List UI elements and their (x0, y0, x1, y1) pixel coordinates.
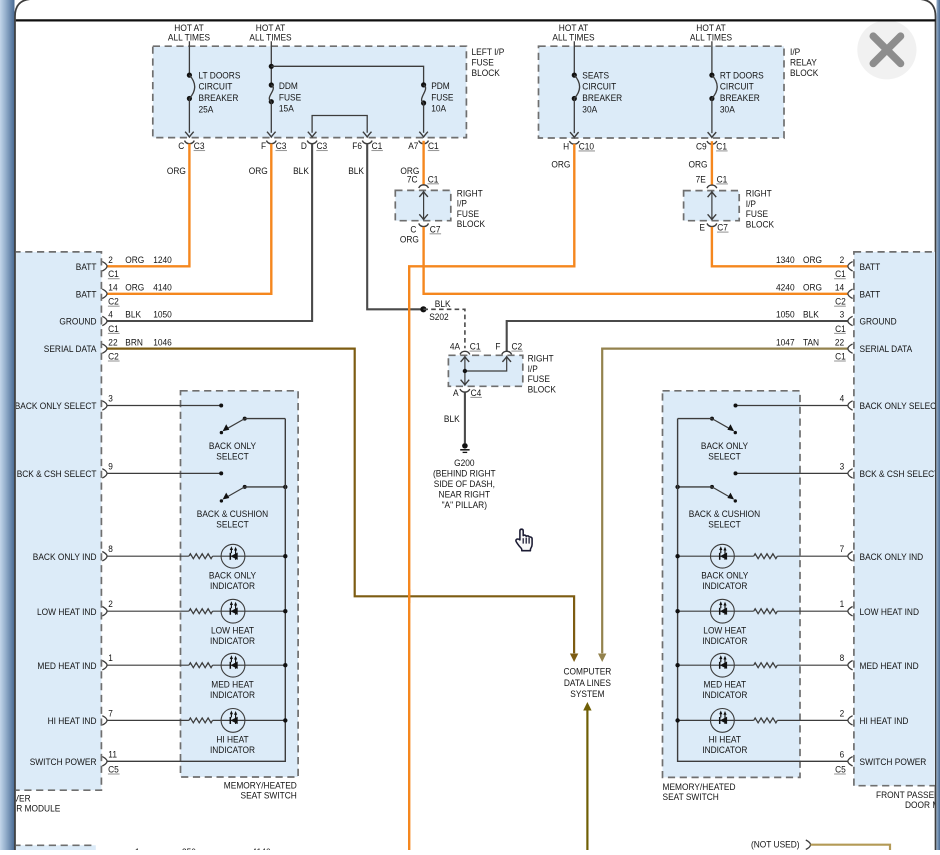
svg-text:INDICATOR: INDICATOR (210, 690, 255, 701)
wire: pass-through arrows inside fuse block (708, 192, 717, 220)
svg-text:BACK ONLY IND: BACK ONLY IND (33, 552, 97, 563)
svg-text:4: 4 (840, 394, 845, 405)
svg-text:LOW HEAT IND: LOW HEAT IND (860, 607, 920, 618)
connector D C3 (301, 141, 328, 152)
svg-text:SERIAL DATA: SERIAL DATA (44, 344, 97, 355)
wire BRN 1046: driver module SERIAL DATA to computer data lines (107, 349, 578, 662)
svg-text:RT DOORS: RT DOORS (720, 70, 764, 81)
wire: feed into SEATS breaker (573, 41, 575, 75)
svg-text:BACK ONLY SELECT: BACK ONLY SELECT (860, 401, 940, 412)
svg-text:BLOCK: BLOCK (746, 219, 775, 230)
connector 7C C1 (407, 174, 439, 188)
svg-text:BLK: BLK (348, 166, 364, 177)
driver module pin number 11 (108, 749, 117, 760)
wire label 1340 ORG pin 2 connector C1 (776, 255, 846, 280)
svg-text:"A" PILLAR): "A" PILLAR) (442, 500, 487, 511)
svg-text:BLOCK: BLOCK (457, 219, 486, 230)
svg-text:3: 3 (840, 461, 845, 472)
svg-text:SEATS: SEATS (582, 70, 609, 81)
switch label BACK ONLY SELECT (passenger) (701, 441, 749, 463)
svg-text:SWITCH POWER: SWITCH POWER (860, 757, 927, 768)
svg-text:DDM: DDM (279, 81, 298, 92)
wire: pin 9 to back & cushion select switch (107, 471, 223, 475)
splice S202 (420, 299, 451, 323)
right I/P fuse block label (528, 354, 557, 396)
svg-text:30A: 30A (582, 104, 597, 115)
connector C C3 (178, 141, 205, 152)
svg-text:H: H (563, 141, 569, 152)
wire: feed into DDM fuse (270, 41, 272, 85)
power feed label: HOT AT ALL TIMES (552, 23, 594, 44)
svg-text:BATT: BATT (860, 262, 881, 273)
wire label BLK (D C3) (293, 166, 309, 177)
svg-text:2: 2 (108, 255, 113, 266)
svg-text:SELECT: SELECT (708, 452, 741, 463)
passenger module pin: BACK ONLY SELECT (848, 401, 940, 412)
svg-text:25A: 25A (199, 104, 214, 115)
memory/heated seat switch label (passenger) (663, 782, 736, 803)
wire TAN 1047: passenger module SERIAL DATA to computer data lines (598, 349, 848, 662)
passenger module pin number 8 (840, 653, 845, 664)
svg-text:7: 7 (108, 708, 113, 719)
connector F C2 (495, 342, 522, 355)
svg-text:S202: S202 (429, 312, 449, 323)
connector F C3 (261, 141, 287, 152)
svg-text:3: 3 (840, 310, 845, 321)
svg-text:BREAKER: BREAKER (199, 93, 239, 104)
svg-text:BRN: BRN (125, 337, 143, 348)
wire label ORG (689, 160, 708, 171)
passenger module pin number 2 (840, 708, 845, 719)
wire ORG 1340: RT DOORS breaker E C7 to passenger door module BATT pin 2 (712, 227, 848, 266)
svg-text:LEFT I/P: LEFT I/P (472, 47, 505, 58)
wire ORG: crossing overdraw at brown wire (408, 590, 410, 604)
wire: jumper between D C3 and F6 C1 (308, 116, 372, 138)
indicator circuit: BACK ONLY INDICATOR (driver) (107, 544, 287, 592)
svg-text:4140: 4140 (153, 283, 172, 294)
connector C C7 (410, 223, 441, 235)
svg-text:7E: 7E (696, 174, 706, 185)
wire: feed into RT DOORS breaker (711, 41, 713, 75)
indicator circuit: LOW HEAT INDICATOR (driver) (107, 599, 287, 647)
svg-text:1: 1 (840, 599, 845, 610)
svg-text:BLK: BLK (293, 166, 309, 177)
right I/P fuse block label (746, 189, 775, 231)
wire: feed into LT DOORS breaker (188, 41, 190, 75)
svg-text:ORG: ORG (803, 283, 822, 294)
passenger module pin: BCK & CSH SELECT (848, 469, 940, 480)
indicator circuit: HI HEAT INDICATOR (passenger) (675, 709, 848, 757)
svg-text:4A: 4A (450, 342, 461, 353)
svg-text:A: A (453, 388, 459, 399)
svg-text:9: 9 (108, 461, 113, 472)
svg-text:COMPUTER: COMPUTER (564, 667, 612, 678)
wire label 1047 TAN pin 22 connector C1 (776, 337, 846, 362)
pin 22 wire label BRN 1046 connector C2 (108, 337, 172, 362)
right I/P fuse block (middle, ground distribution) (448, 355, 522, 386)
svg-text:BLK: BLK (444, 414, 460, 425)
svg-text:INDICATOR: INDICATOR (210, 636, 255, 647)
svg-text:MED HEAT: MED HEAT (211, 679, 254, 690)
wire ORG 1240: LT DOORS breaker C C3 to driver door module BATT pin 2 (107, 144, 189, 267)
pin 14 wire label ORG 4140 connector C2 (108, 283, 172, 308)
wire: DDM junction to PDM fuse (271, 66, 423, 85)
computer data lines system label (564, 667, 612, 701)
switch rail (passenger) (678, 419, 849, 762)
svg-text:ALL TIMES: ALL TIMES (690, 33, 732, 44)
svg-text:INDICATOR: INDICATOR (210, 581, 255, 592)
svg-text:15A: 15A (279, 104, 294, 115)
svg-text:SELECT: SELECT (216, 520, 249, 531)
connector H C10 (563, 141, 595, 152)
switch label BACK & CUSHION SELECT (passenger) (689, 509, 760, 531)
svg-text:BACK ONLY: BACK ONLY (209, 570, 257, 581)
wire TAN: not used branch (811, 845, 891, 851)
memory/heated seat switch label (driver) (224, 780, 297, 801)
passenger module pin number 3 (840, 461, 845, 472)
front passenger door module box (854, 252, 940, 786)
svg-text:INDICATOR: INDICATOR (702, 745, 747, 756)
wire label ORG (400, 166, 419, 177)
svg-text:NEAR RIGHT: NEAR RIGHT (439, 490, 491, 501)
driver door module box (13, 252, 101, 790)
circuit breaker: LT DOORS CIRCUIT BREAKER 25A (185, 70, 240, 137)
svg-text:INDICATOR: INDICATOR (702, 581, 747, 592)
wire ORG: C9 C1 down to 7E C1 (711, 141, 713, 185)
svg-text:I/P: I/P (790, 47, 800, 58)
power feed label: HOT AT ALL TIMES (249, 23, 291, 44)
svg-text:(BEHIND RIGHT: (BEHIND RIGHT (433, 469, 496, 480)
svg-text:SEAT SWITCH: SEAT SWITCH (241, 791, 297, 802)
svg-text:INDICATOR: INDICATOR (702, 636, 747, 647)
svg-text:8: 8 (840, 653, 845, 664)
wire label ORG (C C3) (167, 166, 186, 177)
passenger module pin: LOW HEAT IND (848, 607, 919, 618)
pin 2 wire label ORG 1240 connector C1 (108, 255, 172, 280)
svg-text:SEAT SWITCH: SEAT SWITCH (663, 792, 719, 803)
wire label BLK (F6 C1) (348, 166, 364, 177)
svg-text:8: 8 (108, 544, 113, 555)
svg-text:BACK ONLY IND: BACK ONLY IND (860, 552, 924, 563)
svg-text:LOW HEAT: LOW HEAT (703, 625, 746, 636)
svg-text:22: 22 (108, 337, 117, 348)
wire: pin 3 to back & cushion select switch (passenger) (734, 471, 849, 475)
passenger module pin: SWITCH POWER (848, 757, 926, 768)
wire: pin 4 to back only select switch (passenger) (734, 404, 849, 408)
driver module pin number 9 (108, 461, 113, 472)
svg-text:C9: C9 (696, 141, 707, 152)
switch: BACK ONLY SELECT (passenger) (678, 417, 737, 435)
svg-text:GROUND: GROUND (59, 317, 96, 328)
driver module pin number 3 (108, 394, 113, 405)
svg-text:ORG: ORG (125, 283, 144, 294)
wire BLK 1050: D C3 to driver door module GROUND pin 4 (107, 144, 312, 321)
fuse: PDM FUSE 10A (419, 81, 453, 137)
svg-text:2: 2 (840, 255, 845, 266)
wire ORG 4240: PDM fuse C C7 to passenger door module BATT pin 14 (424, 227, 849, 294)
svg-text:INDICATOR: INDICATOR (210, 745, 255, 756)
passenger module pin number 6 (840, 749, 845, 760)
svg-text:HI HEAT IND: HI HEAT IND (860, 716, 909, 727)
right I/P fuse block (pass-through under A7) (395, 190, 451, 220)
svg-text:(NOT USED): (NOT USED) (751, 840, 800, 850)
svg-text:BACK & CUSHION: BACK & CUSHION (689, 509, 760, 520)
svg-text:1047: 1047 (776, 337, 795, 348)
svg-text:10A: 10A (431, 104, 446, 115)
indicator circuit: MED HEAT INDICATOR (driver) (107, 653, 287, 701)
svg-text:LT DOORS: LT DOORS (199, 70, 241, 81)
wire: from below pointing up into computer data lines system (583, 702, 591, 851)
switch: BACK & CUSHION SELECT (passenger) (675, 485, 737, 503)
ground G200 label (433, 458, 496, 511)
circuit breaker: SEATS CIRCUIT BREAKER 30A (570, 70, 622, 137)
svg-text:2: 2 (840, 708, 845, 719)
driver module pin: BACK ONLY IND (33, 552, 107, 563)
svg-text:CIRCUIT: CIRCUIT (720, 82, 754, 93)
partial bottom row text (135, 847, 271, 855)
svg-text:BATT: BATT (76, 289, 97, 300)
svg-text:MED HEAT IND: MED HEAT IND (37, 661, 96, 672)
indicator circuit: BACK ONLY INDICATOR (passenger) (675, 544, 848, 592)
passenger module pin: BATT (848, 289, 880, 300)
power feed label: HOT AT ALL TIMES (168, 23, 210, 44)
memory/heated seat switch box (driver) (181, 391, 299, 777)
svg-text:14: 14 (835, 283, 845, 294)
wire BLK (dashed): S202 to 4A C1 (423, 309, 465, 348)
passenger module pin: SERIAL DATA (848, 344, 913, 355)
svg-text:BACK ONLY: BACK ONLY (209, 441, 257, 452)
svg-text:HI HEAT: HI HEAT (216, 735, 248, 746)
connector C9 C1 (696, 141, 728, 152)
wire label ORG (H C10) (551, 160, 570, 171)
svg-text:22: 22 (835, 337, 844, 348)
right I/P fuse block label (457, 188, 486, 230)
svg-text:SWITCH POWER: SWITCH POWER (30, 757, 97, 768)
connector 4A C1 (450, 342, 481, 355)
svg-text:SIDE OF DASH,: SIDE OF DASH, (434, 479, 495, 490)
svg-text:SYSTEM: SYSTEM (570, 689, 604, 700)
wire label ORG (400, 234, 419, 245)
wire label 1050 BLK pin 3 connector C1 (776, 310, 846, 335)
svg-text:3: 3 (108, 394, 113, 405)
svg-text:ALL TIMES: ALL TIMES (249, 33, 291, 44)
svg-text:6: 6 (840, 749, 845, 760)
svg-text:F: F (261, 141, 266, 152)
svg-text:LOW HEAT: LOW HEAT (211, 625, 254, 636)
svg-text:HI HEAT IND: HI HEAT IND (48, 716, 97, 727)
svg-text:1046: 1046 (153, 337, 172, 348)
connector A7 C1 (408, 141, 439, 152)
svg-text:D: D (301, 141, 307, 152)
svg-text:ORG: ORG (803, 255, 822, 266)
svg-text:SELECT: SELECT (708, 520, 741, 531)
driver module pin: BACK ONLY SELECT (15, 401, 107, 412)
svg-text:ORG: ORG (167, 166, 186, 177)
svg-text:ORG: ORG (249, 166, 268, 177)
svg-text:ORG: ORG (551, 160, 570, 171)
svg-text:PDM: PDM (431, 81, 450, 92)
passenger module pin: BACK ONLY IND (848, 552, 923, 563)
svg-text:BCK & CSH SELECT: BCK & CSH SELECT (17, 469, 97, 480)
driver module pin: SWITCH POWER (30, 757, 107, 768)
connector C5 (passenger module) (834, 765, 846, 776)
switch: BACK ONLY SELECT (driver) (220, 417, 286, 435)
wire ORG: SEATS breaker H C10 down and left, to seat circuits below (409, 144, 574, 851)
driver module pin: HI HEAT IND (48, 716, 107, 727)
switch: BACK & CUSHION SELECT (driver) (220, 485, 288, 503)
svg-text:ORG: ORG (400, 234, 419, 245)
passenger module pin number 7 (840, 544, 845, 555)
wire ORG 4140: DDM fuse F C3 to driver door module BATT pin 14 (107, 144, 271, 294)
wire: pass-through arrows inside fuse block (419, 192, 428, 220)
wire BLK: A C4 to ground G200 (444, 393, 465, 444)
driver module pin: MED HEAT IND (37, 661, 107, 672)
svg-text:E: E (699, 223, 705, 234)
connector A C4 (453, 388, 482, 399)
svg-text:TAN: TAN (803, 337, 819, 348)
driver module pin number 2 (108, 599, 113, 610)
svg-text:1050: 1050 (776, 310, 795, 321)
svg-text:CIRCUIT: CIRCUIT (582, 82, 616, 93)
front passenger door module label (876, 790, 940, 811)
driver module pin number 8 (108, 544, 113, 555)
connector E C7 (699, 223, 728, 234)
svg-text:DOOR MODULE: DOOR MODULE (905, 800, 940, 811)
svg-text:BLOCK: BLOCK (790, 68, 819, 79)
indicator circuit: MED HEAT INDICATOR (passenger) (675, 653, 848, 701)
svg-text:BCK & CSH SELECT: BCK & CSH SELECT (860, 469, 940, 480)
svg-text:ALL TIMES: ALL TIMES (552, 33, 594, 44)
svg-text:1340: 1340 (776, 255, 795, 266)
svg-text:SELECT: SELECT (216, 452, 249, 463)
svg-text:BACK ONLY SELECT: BACK ONLY SELECT (15, 401, 97, 412)
svg-text:4240: 4240 (776, 283, 795, 294)
svg-text:FUSE: FUSE (431, 92, 453, 103)
svg-text:BREAKER: BREAKER (582, 93, 622, 104)
svg-text:GROUND: GROUND (860, 317, 897, 328)
svg-text:HI HEAT: HI HEAT (709, 735, 741, 746)
svg-text:14: 14 (108, 283, 118, 294)
svg-text:BATT: BATT (76, 262, 97, 273)
left I/P fuse block (153, 46, 467, 137)
pin 4 wire label BLK 1050 connector C1 (108, 310, 172, 335)
svg-text:BLOCK: BLOCK (472, 68, 501, 79)
svg-text:BATT: BATT (860, 289, 881, 300)
passenger module pin: BATT (848, 262, 880, 273)
wire BLK: F6 C1 down to splice S202 (367, 144, 423, 310)
driver module pin number 1 (108, 653, 113, 664)
connector 7E C1 (696, 174, 728, 188)
svg-text:FUSE: FUSE (279, 92, 301, 103)
mouse cursor (hand pointer) (516, 529, 532, 551)
switch rail (driver) (107, 419, 285, 762)
svg-text:SERIAL DATA: SERIAL DATA (860, 344, 913, 355)
indicator circuit: HI HEAT INDICATOR (driver) (107, 709, 287, 757)
wires inside middle fuse block with arrows (461, 357, 511, 385)
driver module pin: LOW HEAT IND (37, 607, 107, 618)
wire ORG: A7 C1 down to 7C C1 (422, 141, 424, 185)
connector F6 C1 (352, 141, 383, 152)
junction: DDM/PDM feed (269, 64, 274, 69)
svg-text:BACK ONLY: BACK ONLY (701, 441, 749, 452)
driver module pin: BCK & CSH SELECT (17, 469, 107, 480)
svg-text:7: 7 (840, 544, 845, 555)
svg-text:C: C (178, 141, 184, 152)
I/P relay block label (790, 47, 819, 79)
circuit breaker: RT DOORS CIRCUIT BREAKER 30A (708, 70, 764, 137)
switch label BACK ONLY SELECT (209, 441, 257, 463)
svg-text:4: 4 (108, 310, 113, 321)
wire BLK: passenger module GROUND pin 3 to F C2 (507, 321, 849, 351)
driver module pin: SERIAL DATA (44, 344, 107, 355)
svg-text:1: 1 (108, 653, 113, 664)
svg-text:LOW HEAT IND: LOW HEAT IND (37, 607, 97, 618)
svg-text:G200: G200 (454, 458, 474, 469)
driver module pin: BATT (76, 289, 107, 300)
partial module box at bottom left (13, 845, 95, 851)
passenger module pin: GROUND (848, 316, 897, 327)
driver module pin number 7 (108, 708, 113, 719)
driver door module label (0, 793, 60, 814)
svg-text:FUSE: FUSE (472, 57, 494, 68)
svg-text:DATA LINES: DATA LINES (564, 678, 611, 689)
svg-text:1240: 1240 (153, 255, 172, 266)
svg-text:BLK: BLK (125, 310, 141, 321)
svg-text:F: F (495, 342, 500, 353)
svg-text:RELAY: RELAY (790, 57, 817, 68)
left I/P fuse block label (472, 47, 505, 79)
ground G200 (460, 443, 469, 452)
svg-text:30A: 30A (720, 104, 735, 115)
svg-text:ORG: ORG (125, 255, 144, 266)
svg-text:ORG: ORG (689, 160, 708, 171)
connector C5 (driver module) (108, 765, 120, 776)
svg-text:11: 11 (108, 749, 117, 760)
connector (NOT USED) (751, 840, 811, 851)
svg-text:7C: 7C (407, 174, 418, 185)
fuse: DDM FUSE 15A (267, 81, 301, 137)
indicator circuit: LOW HEAT INDICATOR (passenger) (675, 599, 848, 647)
switch label BACK & CUSHION SELECT (197, 509, 268, 531)
svg-text:BREAKER: BREAKER (720, 93, 760, 104)
svg-text:MED HEAT: MED HEAT (704, 679, 747, 690)
svg-text:A7: A7 (408, 141, 418, 152)
svg-text:1050: 1050 (153, 310, 172, 321)
driver module pin: BATT (76, 262, 107, 273)
I/P relay block (539, 46, 785, 138)
svg-text:CIRCUIT: CIRCUIT (199, 82, 233, 93)
wire: pin 3 to back only select switch (107, 404, 223, 408)
passenger module pin: MED HEAT IND (848, 661, 919, 672)
svg-text:BACK & CUSHION: BACK & CUSHION (197, 509, 268, 520)
passenger module pin: HI HEAT IND (848, 716, 909, 727)
svg-text:2: 2 (108, 599, 113, 610)
svg-text:INDICATOR: INDICATOR (702, 690, 747, 701)
memory/heated seat switch box (passenger) (663, 391, 801, 778)
wire label ORG (F C3) (249, 166, 268, 177)
driver module pin: GROUND (59, 316, 107, 327)
svg-text:BACK ONLY: BACK ONLY (701, 570, 749, 581)
svg-text:BLOCK: BLOCK (528, 384, 557, 395)
passenger module pin number 1 (840, 599, 845, 610)
passenger module pin number 4 (840, 394, 845, 405)
svg-text:MED HEAT IND: MED HEAT IND (860, 661, 919, 672)
right I/P fuse block (pass-through under C9) (684, 191, 740, 221)
svg-text:F6: F6 (352, 141, 362, 152)
svg-text:BLK: BLK (803, 310, 819, 321)
wire label 4240 ORG pin 14 connector C2 (776, 283, 846, 308)
power feed label: HOT AT ALL TIMES (690, 23, 732, 44)
